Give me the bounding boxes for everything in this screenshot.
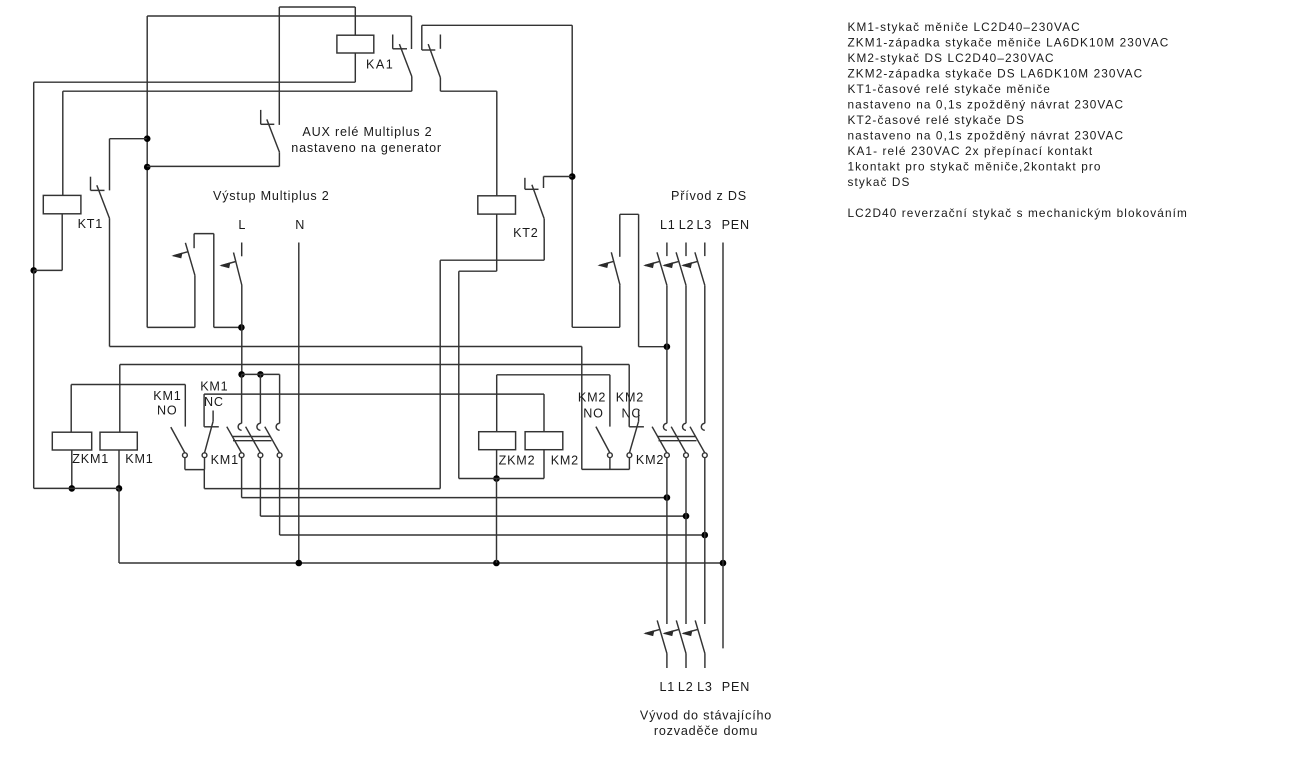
label KM2 main contacts: [636, 453, 664, 467]
wire cross-coupling y=394.1 from KM1 NC to KM2 coil: [204, 393, 544, 395]
wire KA1 contact 2 output down: [439, 78, 441, 92]
wire L1 phase from switch to node: [666, 285, 668, 346]
label PEN output: [722, 680, 750, 694]
label L terminal: [238, 218, 246, 232]
svg-text:nastaveno na 0,1s zpožděný náv: nastaveno na 0,1s zpožděný návrat 230VAC: [848, 98, 1125, 112]
wire horizontal rail y=91.2 from KT1 branch to KA1 contact1: [63, 90, 412, 92]
contact KM1 NO top terminal: [184, 385, 186, 427]
label L2 output: [678, 680, 694, 694]
svg-text:KT2: KT2: [513, 226, 539, 240]
wire KM1 pole3 output to L3: [280, 458, 705, 536]
svg-text:nastaveno na 0,1s zpožděný náv: nastaveno na 0,1s zpožděný návrat 230VAC: [848, 129, 1125, 143]
svg-text:KM2: KM2: [578, 391, 606, 405]
wire KM2 aux left leg x=581.8: [581, 347, 583, 470]
wire input terminal stub x=686.0: [685, 243, 687, 257]
wire KT1 contact feed from x=147 junction: [110, 139, 147, 191]
node junction at (666.9,346.7): [664, 343, 671, 350]
node junction at (723,563): [720, 560, 727, 567]
wire L3 phase down to KM2 pole3: [704, 285, 706, 423]
wire KM1 aux bottom rail: [185, 469, 204, 471]
label PEN input: [722, 218, 750, 232]
label L2 input: [679, 218, 695, 232]
svg-text:KA1- relé 230VAC 2x přepínací: KA1- relé 230VAC 2x přepínací kontakt: [848, 144, 1094, 158]
node junction at (666.9,497.6): [664, 494, 671, 501]
contact KA1 no.1 feed from top line: [411, 16, 413, 49]
svg-text:ZKM1: ZKM1: [72, 452, 109, 466]
svg-text:KM2: KM2: [636, 453, 664, 467]
contact main pole fixed arc: [257, 423, 261, 430]
wire KM2 coil bottom: [543, 450, 545, 479]
label L1 output: [660, 680, 676, 694]
svg-text:Vývod do stávajícího: Vývod do stávajícího: [640, 709, 772, 723]
wire ZKM2 drop to neutral rail: [496, 479, 498, 564]
contact main pole pivot: [258, 453, 263, 458]
contact KM1 NO pivot: [183, 453, 188, 458]
node junction at (704.8,535): [702, 532, 709, 539]
wire PEN line vertical: [722, 243, 724, 649]
label KM2 NO line1: [578, 391, 606, 405]
node junction at (496.4,563): [493, 560, 500, 567]
switch output feeder blade with arrow: [645, 620, 667, 653]
node junction at (33.7,270.4): [30, 267, 37, 274]
switch output feeder blade with arrow: [683, 620, 705, 653]
wire KT2 contact feed from junction: [544, 177, 573, 189]
contact main pole fixed arc: [276, 423, 280, 430]
wire left vertical x=33.7 upper part: [33, 82, 35, 270]
node junction at (241.4,327.4): [238, 324, 245, 331]
svg-text:KT2-časové relé stykače DS: KT2-časové relé stykače DS: [848, 113, 1025, 127]
contact KM2 NC blade tip tick: [638, 411, 640, 422]
wire L3 output vertical: [704, 458, 706, 625]
contact AUX rele blade: [267, 119, 280, 152]
svg-text:NO: NO: [583, 407, 604, 421]
svg-text:ZKM2-západka stykače DS LA6DK1: ZKM2-západka stykače DS LA6DK10M 230VAC: [848, 67, 1144, 81]
wire L terminal stub: [241, 243, 243, 257]
wire pole feed x=241.6: [241, 374, 243, 423]
wire KM1 pole1 output to L1: [242, 458, 667, 498]
wire KM1 pole2 output to L2: [260, 458, 686, 517]
wire KA1 coil top feed: [354, 7, 356, 35]
wire KM1 poles feed bus y=374.4: [242, 373, 280, 375]
switch output no.1 fixed stub and bridge: [194, 234, 214, 328]
label Privod z DS: [671, 189, 747, 203]
contact KM2 main pole blade: [652, 427, 667, 453]
svg-text:KM1: KM1: [211, 453, 239, 467]
label ZKM1: [72, 452, 109, 466]
wire N line vertical x=298.8: [298, 243, 300, 564]
svg-text:ZKM1-západka stykače měniče LA: ZKM1-západka stykače měniče LA6DK10M 230…: [848, 36, 1170, 50]
contact KM2 main pole blade: [690, 427, 705, 453]
svg-text:nastaveno na generator: nastaveno na generator: [291, 141, 442, 155]
contact KM2 NC pivot: [627, 453, 632, 458]
contact KM2 NC fixed foot: [629, 426, 644, 428]
switch input blade with arrow: [645, 252, 667, 285]
wire KM1 aux rail drop x=204.3: [203, 470, 205, 489]
wire KM2 coil top feed: [543, 394, 545, 432]
contactor coil KM2: [525, 432, 563, 450]
svg-text:PEN: PEN: [722, 680, 750, 694]
contact main pole blade: [246, 427, 261, 453]
mechanical link KM1 upper: [232, 436, 270, 438]
wire switch2 output vertical x=241.8 to KM1 feed node: [241, 286, 243, 375]
wire AUX contact output down: [278, 152, 280, 166]
wire KA1 coil bottom: [354, 53, 356, 82]
contact KT2 fixed contact L: [525, 178, 539, 190]
contact KM2 main pole fixed arc: [701, 423, 705, 430]
contact KT1 blade: [97, 185, 110, 218]
contact KM2 main pole blade: [671, 427, 686, 453]
svg-text:NC: NC: [204, 395, 224, 409]
label KM2 NC line2: [622, 407, 642, 421]
contact KM1 NC blade: [205, 421, 214, 453]
label Vystup Multiplus 2: [213, 189, 330, 203]
wire output terminal stub: [704, 653, 706, 668]
wire AUX output horizontal to x=147 junction: [147, 165, 280, 167]
wire DS switch right leg down to L1 node: [639, 214, 667, 346]
label KM1 NO line2: [157, 403, 178, 417]
svg-text:L1: L1: [660, 680, 676, 694]
wire KT1 contact output down x=109.5: [109, 218, 111, 346]
wire ZKM2-KM2 coil return rail y=478.5: [459, 478, 544, 480]
wire output terminal stub: [685, 653, 687, 668]
contact AUX rele Multiplus fixed contact L: [261, 110, 275, 124]
label N terminal: [295, 218, 305, 232]
label L3 input: [697, 218, 713, 232]
wire input terminal stub x=666.9: [666, 243, 668, 257]
svg-text:KM1: KM1: [200, 380, 228, 394]
svg-text:KM1: KM1: [153, 389, 181, 403]
wire vertical x=147.2 from top line down to output hairpin: [146, 16, 148, 327]
svg-text:PEN: PEN: [722, 218, 750, 232]
wire KM2 NC pivot stem: [628, 458, 630, 470]
svg-text:N: N: [295, 218, 305, 232]
wire long horizontal y=346.5 to KM2 aux block: [110, 346, 582, 348]
wire KM1 NC pivot stem: [204, 458, 206, 470]
label KM2 NO line2: [583, 407, 604, 421]
svg-text:L2: L2: [678, 680, 694, 694]
svg-text:KT1-časové relé stykače měniče: KT1-časové relé stykače měniče: [848, 82, 1051, 96]
label Vyvod do stavajiciho: [640, 709, 772, 723]
switch output no.2 blade with arrow: [221, 253, 242, 286]
wire vertical x=458.8 down to ZKM2 coil rail: [458, 271, 460, 478]
svg-text:KM2: KM2: [616, 391, 644, 405]
wire horizontal rail y=82 from left branch to KA1 coil: [34, 81, 356, 83]
mechanical link KM2 upper: [658, 436, 696, 438]
node junction at (241.6,374.4): [238, 371, 245, 378]
node junction at (260.4,374.4): [257, 371, 264, 378]
svg-text:L2: L2: [679, 218, 695, 232]
switch DS sectionalizer top bar: [620, 214, 639, 256]
wire DS switch blade output leg: [619, 285, 621, 327]
wire output terminal stub: [666, 653, 668, 668]
svg-text:L1: L1: [660, 218, 676, 232]
wire top horizontal y=16: [147, 15, 411, 17]
svg-text:rozvaděče domu: rozvaděče domu: [654, 724, 758, 738]
latch coil ZKM2: [479, 432, 516, 450]
contact KA1 no.2 top wire to DS feed: [422, 24, 572, 26]
switch DS sectionalizer blade with arrow: [599, 252, 620, 285]
contact KM1 NC blade tip tick: [212, 411, 214, 422]
label rozvadece domu: [654, 724, 758, 738]
contact KM1 NC pivot: [202, 453, 207, 458]
contact main pole blade: [265, 427, 280, 453]
switch input blade with arrow: [683, 252, 705, 285]
switch output no.1 blade with arrow: [173, 243, 195, 275]
contact KA1 no.1 fixed contact L: [393, 35, 407, 49]
svg-text:stykač DS: stykač DS: [848, 175, 911, 189]
contact main pole fixed arc: [238, 423, 241, 430]
wire KT1 coil bottom: [61, 214, 63, 271]
svg-text:L3: L3: [697, 218, 713, 232]
wire coil-top link y=384.5 ZKM1 to KM1 NO: [71, 384, 185, 386]
contact KM2 NC feed vertical: [628, 365, 630, 427]
contact KA1 no.2 right tick: [439, 35, 441, 49]
wire left vertical x=33.7 lower part to ZKM1 rail: [33, 270, 35, 488]
contact KM1 NC fixed foot: [204, 426, 219, 428]
label KM1 NC line1: [200, 380, 228, 394]
svg-text:KT1: KT1: [78, 217, 104, 231]
svg-text:KA1: KA1: [366, 57, 394, 71]
svg-text:Výstup Multiplus 2: Výstup Multiplus 2: [213, 189, 330, 203]
svg-text:KM2-stykač DS LC2D40–230VAC: KM2-stykač DS LC2D40–230VAC: [848, 51, 1055, 65]
wire L1 phase node to KM2 pole1: [666, 347, 668, 424]
label L3 output: [697, 680, 713, 694]
switch input blade with arrow: [664, 252, 686, 285]
wire KT2 contact output down: [543, 219, 545, 260]
label KT1: [78, 217, 104, 231]
contact KM2 NC blade: [629, 421, 638, 453]
node junction at (298.8,563): [296, 560, 303, 567]
contact KT1 fixed contact L: [91, 177, 105, 191]
wire L2 phase down to KM2 pole2: [685, 285, 687, 423]
label KM1 NO line1: [153, 389, 181, 403]
label ZKM2: [499, 454, 536, 468]
contact KM1 NC feed vertical: [203, 394, 205, 427]
wire KM2 aux bottom rail: [582, 468, 630, 470]
wire KA1 contact2 output to KT2 coil branch: [440, 90, 496, 92]
wire vertical x=572.2 from KA1 contact2 to DS switch: [571, 25, 573, 327]
contact KM2 main pole pivot: [665, 453, 670, 458]
contact main pole pivot: [239, 453, 244, 458]
wire vertical x=496.8 down to KT2 coil: [496, 91, 498, 196]
timer coil KT1: [43, 195, 81, 213]
wire KT2 coil bottom: [496, 214, 498, 271]
description text block: [848, 20, 1188, 220]
wire pole feed x=260.4: [259, 374, 261, 423]
wire pole feed x=279.6: [279, 374, 281, 423]
wire DS hairpin bottom: [572, 326, 620, 328]
label L1 input: [660, 218, 676, 232]
wire KM2 NO pivot stem: [609, 458, 611, 470]
wire L2 output vertical: [685, 458, 687, 625]
wire ZKM2 coil top feed: [496, 375, 498, 432]
label nastaveno na generator line 2: [291, 141, 442, 155]
label KM2 NC line1: [616, 391, 644, 405]
wire top loop horizontal feeding KA1 coil and AUX contact: [279, 6, 355, 8]
wire coil-top link y=374.8 ZKM2 to KM2 NO: [497, 374, 610, 376]
contact KM2 main pole pivot: [684, 453, 689, 458]
wire KM1 NO pivot stem: [184, 458, 186, 470]
svg-text:KM2: KM2: [551, 454, 579, 468]
node junction at (71.8,488.4): [69, 485, 76, 492]
wire KT2 output horizontal y=260: [440, 259, 544, 261]
wire ZKM1 coil top feed: [70, 385, 72, 433]
wire long horizontal y=364.5 KM1 coil feed to KM2 NC: [120, 364, 629, 366]
svg-text:AUX relé Multiplus 2: AUX relé Multiplus 2: [302, 125, 432, 139]
wire coil return rail y=488.4: [34, 487, 119, 489]
wire input terminal stub x=704.8: [704, 243, 706, 257]
relay coil KA1: [337, 35, 374, 53]
svg-text:L: L: [238, 218, 246, 232]
svg-text:LC2D40 reverzační stykač s mec: LC2D40 reverzační stykač s mechanickým b…: [848, 206, 1188, 220]
svg-text:NO: NO: [157, 403, 178, 417]
wire ZKM1 coil bottom: [71, 450, 73, 488]
contact KA1 no.2 fixed contact with foot: [422, 25, 436, 50]
node junction at (119,488.4): [116, 485, 123, 492]
wire KM1 coil feed vertical x=119.8: [119, 365, 121, 433]
svg-text:KM1-stykač měniče LC2D40–230VA: KM1-stykač měniče LC2D40–230VAC: [848, 20, 1081, 34]
mechanical link KM1 lower: [233, 440, 272, 442]
svg-text:KM1: KM1: [125, 452, 153, 466]
contact main pole blade: [227, 427, 242, 453]
timer coil KT2: [478, 196, 516, 214]
node junction at (686,516.1): [683, 513, 690, 520]
label AUX rele Multiplus 2 line 1: [302, 125, 432, 139]
wire KM1 aux return y=488.6 to KT2 contact branch: [204, 488, 440, 490]
contact KM2 NO top terminal: [609, 375, 611, 427]
latch coil ZKM1: [52, 432, 91, 450]
contact KM2 NO blade: [596, 427, 610, 453]
contact KM1 NO blade: [171, 427, 185, 453]
contactor coil KM1: [100, 432, 137, 450]
node junction at (147.2,167): [144, 164, 151, 171]
svg-text:ZKM2: ZKM2: [499, 454, 536, 468]
svg-text:Přívod z DS: Přívod z DS: [671, 189, 747, 203]
label KM1 NC line2: [204, 395, 224, 409]
contact KM2 NO pivot: [608, 453, 613, 458]
wire KM1 coil bottom: [118, 450, 120, 488]
svg-text:L3: L3: [697, 680, 713, 694]
label KM1 coil: [125, 452, 153, 466]
wire KT1 coil top feed: [62, 91, 64, 195]
wire KT1 coil return to left rail junction: [34, 269, 63, 271]
node junction at (147.2,138.7): [144, 135, 151, 142]
contact KA1 no.2 blade: [428, 44, 440, 78]
wire vertical x=440.2 down to KM1 aux return rail: [439, 260, 441, 488]
wire x=119 drop to neutral rail: [118, 488, 120, 563]
switch output feeder blade with arrow: [664, 620, 686, 653]
wire neutral rail y=563 to PEN: [119, 562, 723, 564]
wire ZKM2 coil bottom: [496, 450, 498, 479]
wire output switch1 hairpin bottom: [147, 326, 195, 328]
node junction at (496.5,478.5): [493, 475, 500, 482]
contact KM2 main pole fixed arc: [683, 423, 686, 430]
wire bridge to junction at x=241.4: [214, 326, 242, 328]
wire KT2 coil return horizontal y=271: [459, 270, 497, 272]
label KM1 main contacts: [211, 453, 239, 467]
svg-text:1kontakt pro stykač měniče,2ko: 1kontakt pro stykač měniče,2kontakt pro: [848, 160, 1102, 174]
contact KM2 main pole pivot: [702, 453, 707, 458]
mechanical link KM2 lower: [659, 440, 697, 442]
wire KA1 contact 1 output: [411, 77, 413, 92]
contact KT2 blade: [532, 185, 544, 219]
contact KM2 main pole fixed arc: [663, 423, 666, 430]
wire L1 output vertical: [666, 458, 668, 625]
label KM2 coil: [551, 454, 579, 468]
label KT2: [513, 226, 539, 240]
node junction at (572.2,176.5): [569, 173, 576, 180]
wire AUX contact feed from top loop: [278, 7, 280, 125]
contact KA1 no.1 blade: [399, 44, 411, 76]
wire output switch1 blade leg: [194, 275, 196, 327]
label KA1: [366, 57, 394, 71]
contact main pole pivot: [277, 453, 282, 458]
